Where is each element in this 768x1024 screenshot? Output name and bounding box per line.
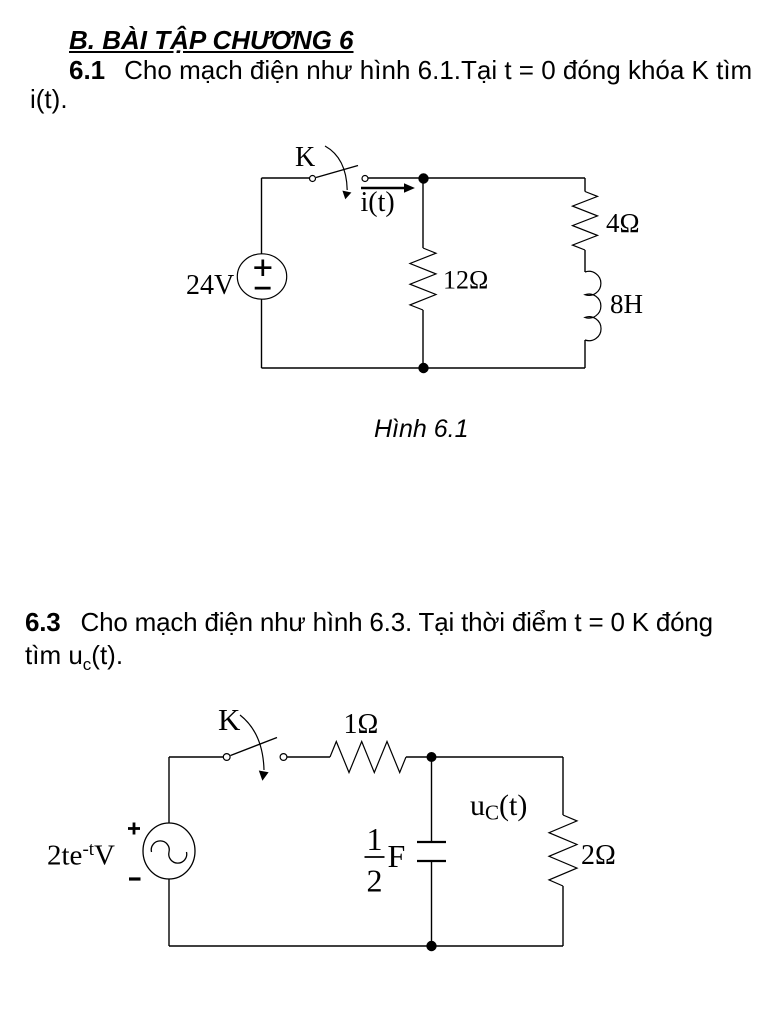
switch K arrowhead (c2): [259, 771, 269, 781]
svg-text:uC(t): uC(t): [470, 789, 527, 825]
minus sign inside source: [255, 287, 271, 290]
wire right branch lower: [584, 340, 586, 368]
plus sign inside source: [254, 266, 271, 269]
svg-text:F: F: [388, 838, 406, 874]
switch K arrowhead: [342, 191, 351, 200]
svg-text:K: K: [295, 142, 315, 173]
svg-text:24V: 24V: [186, 270, 234, 301]
voltage source circle (c2): [143, 823, 195, 879]
wire middle branch upper: [422, 178, 424, 248]
svg-text:2: 2: [367, 863, 383, 899]
wire top-left horizontal: [262, 177, 310, 179]
sine wave inside source (c2): [151, 841, 186, 863]
node bottom junction dot (c2): [426, 941, 436, 951]
node top junction dot (c2): [427, 752, 437, 762]
svg-text:12Ω: 12Ω: [443, 266, 488, 295]
wire bottom horizontal (c2): [169, 945, 563, 947]
capacitor plate bottom: [417, 860, 446, 862]
resistor 12 ohm zigzag: [410, 248, 436, 310]
wire top-middle horizontal: [368, 177, 585, 179]
switch K arm: [316, 166, 358, 178]
switch K contact circle right (c2): [280, 754, 287, 761]
wire top-left horizontal (c2): [169, 756, 224, 758]
svg-text:i(t): i(t): [361, 187, 395, 218]
wire from switch to resistor (c2): [287, 756, 330, 758]
inductor 8H coil: [585, 271, 601, 340]
svg-text:2Ω: 2Ω: [581, 840, 616, 871]
capacitor branch lower wire: [431, 861, 433, 946]
resistor 4 ohm zigzag: [573, 192, 598, 251]
problem 6.3 text line 2: [25, 642, 123, 678]
svg-text:2te-tV: 2te-tV: [47, 839, 115, 872]
node top junction dot: [418, 173, 428, 183]
wire top-right horizontal (c2): [406, 756, 563, 758]
switch K arm (c2): [231, 738, 278, 756]
caption Hinh 6.1: [374, 417, 469, 442]
plus sign (c2): [128, 827, 140, 830]
minus sign (c2): [129, 877, 141, 880]
wire right branch lower (c2): [562, 886, 564, 946]
wire left vertical (source branch lower): [261, 299, 263, 368]
switch K swing arc (c2): [240, 715, 264, 770]
resistor 2 ohm zigzag: [549, 815, 577, 886]
wire left vertical upper (c2): [168, 757, 170, 823]
switch K swing arc: [325, 146, 347, 190]
wire bottom horizontal: [262, 367, 586, 369]
svg-text:1Ω: 1Ω: [344, 709, 379, 740]
svg-text:1: 1: [367, 821, 383, 857]
problem 6.1 text line 2: [30, 86, 68, 112]
svg-text:K: K: [218, 702, 241, 737]
resistor 1 ohm zigzag: [330, 742, 406, 773]
wire right branch upper: [584, 178, 586, 192]
switch K contact circle left: [310, 176, 316, 182]
section title: [69, 27, 354, 53]
capacitor branch upper wire: [431, 757, 433, 842]
wire middle branch lower: [422, 310, 424, 368]
wire left vertical (source branch upper): [261, 178, 263, 254]
wire right branch upper (c2): [562, 757, 564, 815]
svg-text:4Ω: 4Ω: [606, 208, 640, 238]
wire right branch middle: [584, 250, 586, 272]
wire left vertical lower (c2): [168, 879, 170, 946]
svg-text:8H: 8H: [610, 289, 643, 319]
problem 6.3 text line 1: [25, 609, 713, 635]
node bottom junction dot: [418, 363, 428, 373]
capacitor plate top: [417, 841, 446, 843]
current arrow i(t): [361, 187, 405, 190]
switch K contact circle left (c2): [223, 754, 230, 761]
problem 6.1 text line 1: [69, 57, 752, 83]
voltage source 24V circle: [237, 254, 286, 299]
switch K contact circle right: [362, 176, 368, 182]
